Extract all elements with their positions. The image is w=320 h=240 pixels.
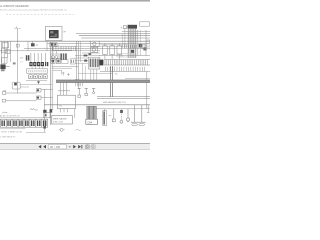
down arrow marker — [37, 81, 40, 84]
toolbar prev-page button — [43, 145, 46, 149]
toolbar zoom icon 1 — [85, 145, 89, 149]
connector CN2 wire bundle (vertical) — [128, 25, 137, 58]
mark left of fuse row — [13, 62, 16, 64]
key switch SW1 contact + wire — [28, 41, 39, 51]
level gauge LG (narrow vertical box) — [103, 109, 107, 126]
drop wires to ground bus — [82, 63, 85, 80]
thick ground bus bar — [56, 80, 150, 83]
sender drop with dark box and circle — [120, 109, 123, 123]
svg-text:Read the collection pressure-p: Read the collection pressure-proof circu… — [0, 8, 67, 11]
main harness wire pair (vertical centre) — [51, 42, 53, 125]
terminal strip top rail — [0, 117, 48, 119]
wire y44.4 connector row — [100, 43, 128, 45]
label box L1 with text — [52, 116, 73, 124]
resistor R1 squiggle — [30, 108, 38, 110]
right edge wire — [146, 72, 148, 109]
ground lug G1 — [59, 128, 65, 131]
svg-text:NOTE: 1. WIRE COLOR: NOTE: 1. WIRE COLOR — [1, 131, 22, 133]
plug drop with square terminal — [112, 109, 115, 122]
page background — [0, 0, 150, 150]
short drop far right — [147, 105, 149, 113]
battery B+ feed wire — [14, 27, 20, 41]
branch wire right mid — [75, 45, 128, 47]
junction box J1 — [12, 82, 52, 89]
fusible link box F0b — [2, 49, 7, 53]
gauge tick label — [109, 114, 112, 116]
lower feed wire — [0, 50, 72, 52]
relay K1 with coil — [91, 41, 100, 46]
wire y55.5 with splice mark — [75, 55, 100, 57]
spare fuse squares row — [29, 75, 48, 79]
lamp T-glyph 3 — [92, 88, 95, 94]
toolbar page-number input — [48, 145, 66, 150]
switch S3 box — [117, 43, 122, 59]
splice mark 2 — [88, 53, 91, 55]
ign bus wire — [24, 47, 150, 49]
relay box with coils RC1 RC2 — [51, 51, 59, 60]
svg-text:AL CIRCUIT DIAGRAM: AL CIRCUIT DIAGRAM — [0, 4, 29, 8]
toolbar dropdown tick — [69, 146, 71, 148]
bulb drop with filament tail — [126, 109, 129, 122]
main feed wire (full-width horizontal) — [0, 40, 150, 42]
switch S1 box — [103, 43, 108, 59]
solenoid V1 — [36, 89, 52, 92]
right small box 2 — [146, 40, 150, 43]
node legs from +WC box — [122, 28, 125, 48]
lower bus wire — [44, 104, 150, 106]
harness wire pair right — [111, 66, 113, 97]
strip underline 2 — [26, 132, 46, 134]
right tick row (terminal pins) — [122, 45, 149, 48]
junction stub wire — [20, 86, 29, 88]
top window edge strip — [0, 0, 150, 2]
sensor squiggle bottom — [75, 129, 80, 130]
svg-text:30 / 135: 30 / 135 — [50, 145, 61, 149]
acc bus wire — [47, 42, 150, 44]
ecu leg ticks — [91, 69, 97, 80]
fuse holder strip label box — [27, 69, 48, 73]
signal wire pair lower — [97, 97, 150, 99]
wire from controller to label box — [74, 109, 76, 118]
connector CN3 lower pin ticks — [100, 67, 150, 72]
fuse lower leg comb — [32, 66, 43, 68]
alternator G (dark glyph) — [0, 64, 9, 71]
fusible link second box — [5, 50, 10, 54]
relay K2 with coil — [91, 47, 98, 52]
mid-left dense module row — [51, 59, 76, 64]
key switch column wire — [46, 41, 48, 51]
fuse end double tick — [45, 62, 48, 66]
svg-text:OP: OP — [63, 32, 67, 34]
toolbar next-page button — [73, 145, 76, 149]
svg-text:2. SEE TABLE P.3: 2. SEE TABLE P.3 — [0, 136, 15, 139]
controller box A1 — [57, 83, 75, 113]
connector CN3 label — [117, 53, 128, 57]
left harness wires (vertical) — [1, 41, 17, 93]
pressure switch SW2 — [2, 90, 36, 94]
dashed harness boundary line — [6, 14, 76, 16]
mid cross wire y68 — [52, 67, 72, 69]
right bus wires (horizontal) — [76, 31, 150, 38]
wire y53 right — [82, 52, 100, 54]
connector CN3 dark end block — [99, 60, 103, 66]
fuse feeder wires (vertical comb) — [31, 53, 45, 62]
terminal strip TB1 (dark pin boxes) — [0, 119, 47, 127]
toolbar first-page button — [38, 145, 41, 149]
relay K0 box — [2, 58, 7, 64]
branch vertical x44 — [43, 89, 46, 132]
node +W with terminal box — [121, 26, 132, 30]
svg-text:A1 B2 C3 D4 E5 F6 G7: A1 B2 C3 D4 E5 F6 G7 — [0, 115, 20, 118]
svg-text:WC: WC — [115, 73, 119, 75]
vertical wire x78 — [77, 41, 79, 89]
lamp T-glyph 2 — [85, 88, 88, 96]
fusible link box F0 — [2, 43, 8, 48]
harness vertical pair x76-78 — [77, 41, 81, 80]
toolbar last-page button — [78, 145, 82, 149]
svg-text:CN4: CN4 — [87, 121, 92, 124]
fuse panel bottom rail — [26, 80, 47, 82]
connector strip CN5 with pin ticks — [52, 46, 75, 50]
terminal strip underline — [0, 128, 25, 130]
feeder wires into ecu — [75, 58, 88, 63]
subtitle caution note — [0, 8, 67, 11]
lamp T-glyph 1 — [78, 88, 81, 97]
wire tag mark — [43, 126, 46, 129]
right harness verticals — [138, 30, 146, 56]
fuse block hatch bars — [26, 55, 30, 60]
connector CN4 ribbon (striped) — [86, 106, 98, 124]
top right relay box — [140, 22, 150, 26]
switch S2 box — [110, 43, 115, 59]
small box on B+ wire — [16, 44, 19, 47]
diode block D1 — [131, 44, 147, 53]
wire above ground bus — [125, 77, 150, 79]
svg-text:MAIN HARNESS (SEE P.51): MAIN HARNESS (SEE P.51) — [103, 101, 126, 104]
splice dark mark near bus — [50, 109, 53, 112]
solenoid V2 — [36, 96, 52, 99]
ground ticks under bus bar — [75, 79, 83, 86]
oil sender squiggle — [2, 112, 7, 113]
fuse row F1-F4 (dark squares) — [29, 62, 44, 66]
temperature switch SW3 — [2, 99, 36, 102]
toolbar zoom icon 2 — [91, 145, 95, 149]
connector CN3 top rail — [99, 55, 150, 57]
starter motor M1 (dark block in box) — [45, 26, 62, 40]
svg-text:WIRE GAUGE: WIRE GAUGE — [53, 117, 67, 120]
left harness extra vertical — [7, 41, 9, 58]
svg-text:0.85 / 1.25: 0.85 / 1.25 — [53, 122, 64, 124]
hatched connector bars — [60, 53, 66, 60]
small box above strip — [44, 113, 50, 118]
lower bus wire 2 — [96, 108, 150, 110]
wire mid-left horizontal — [52, 66, 78, 68]
right small box 1 — [142, 44, 146, 49]
title text: AL CIRCUIT DIAGRAM — [0, 4, 29, 8]
viewer toolbar background — [0, 143, 150, 150]
starter aux box with terminal marks — [50, 42, 60, 46]
sensor arrows group — [62, 72, 70, 76]
connector CN3 pin row — [104, 60, 150, 65]
ecu box top right-middle — [88, 57, 99, 69]
mid cross wire y73.5 — [78, 73, 113, 75]
L-shaped branch wire — [53, 70, 62, 74]
ground symbol 2 — [138, 105, 145, 126]
svg-text:1 2: 1 2 — [20, 62, 23, 64]
wire y50.5 right — [75, 50, 100, 52]
ground symbol 1 — [131, 105, 139, 126]
